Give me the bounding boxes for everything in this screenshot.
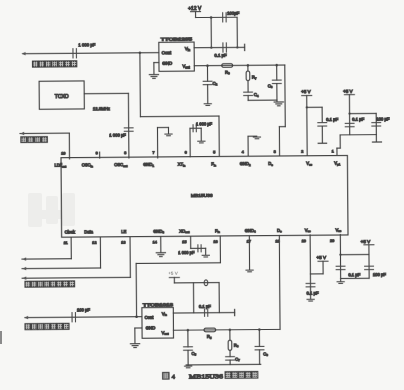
svg-text:Do: Do	[277, 228, 282, 234]
regulator U2 box TTOB1285	[159, 42, 195, 71]
svg-text:TTOB1285: TTOB1285	[161, 36, 193, 41]
node A junction on input line	[139, 51, 142, 54]
svg-text:1 000 pF: 1 000 pF	[196, 121, 213, 126]
power +5V pin 2	[302, 95, 312, 97]
wire: lock detect line	[20, 132, 69, 134]
regulator U3 box TTOB1018	[142, 307, 174, 338]
svg-text:Fin: Fin	[215, 228, 220, 234]
terminal bar end of Vin rail	[244, 44, 246, 50]
svg-text:2: 2	[301, 149, 303, 154]
wire: pin 9 stub	[99, 152, 101, 158]
svg-text:100 μF: 100 μF	[376, 117, 390, 122]
label: RF input Chinese	[32, 61, 76, 67]
svg-text:0.1 μF: 0.1 μF	[352, 117, 364, 122]
wire: lock detect down to pin 10	[68, 133, 70, 159]
wire: U3 Vin line	[173, 312, 234, 314]
terminal: Clock	[22, 257, 26, 260]
label: synth output Chinese	[25, 323, 69, 329]
wire: U2 Vout line	[194, 64, 284, 67]
capacitor C-b 0.1uF	[223, 43, 226, 52]
terminal: Data	[22, 267, 26, 270]
terminal: lock detect output	[20, 132, 24, 135]
wire: Vin rail of U2	[194, 46, 244, 48]
wire: U3 Vout loop filter line	[173, 328, 280, 331]
svg-text:Vout: Vout	[182, 64, 189, 70]
svg-text:XOout: XOout	[179, 229, 189, 235]
svg-text:LE: LE	[121, 229, 126, 234]
svg-text:OSCout: OSCout	[114, 162, 127, 168]
wire: pin 16 Fin2 route	[219, 236, 221, 263]
svg-text:Clock: Clock	[65, 229, 76, 234]
terminal bar 100uF	[372, 141, 381, 143]
capacitor 100uF right	[372, 123, 381, 126]
svg-text:GND: GND	[162, 61, 173, 66]
svg-text:R6: R6	[234, 343, 239, 349]
terminal: synthesizer output port	[24, 316, 28, 319]
capacitor C3 branch	[276, 65, 278, 80]
svg-text:C4: C4	[254, 92, 259, 98]
junction on +12V rail	[210, 16, 213, 19]
terminal: RF synthesizer input	[21, 52, 25, 55]
wire: to 100uF branch	[350, 112, 377, 114]
svg-text:GND4: GND4	[245, 228, 256, 234]
capacitor: OSC coupling 1000pF	[124, 128, 133, 131]
power +5V pin 1	[344, 94, 354, 96]
scan artifact: faint watermark	[28, 193, 75, 227]
svg-text:R7: R7	[252, 75, 257, 81]
svg-text:3: 3	[274, 149, 276, 154]
junctions on Vout line	[206, 64, 209, 67]
resistor R7 vertical	[247, 65, 249, 71]
wire: VCO input line	[25, 316, 142, 319]
power +12V lead	[191, 11, 201, 13]
svg-text:GND: GND	[146, 326, 156, 331]
capacitor U3 Vin 0.1uF	[204, 309, 207, 316]
wire: pin2 bypass branch	[307, 106, 322, 108]
svg-text:1 000 pF: 1 000 pF	[178, 250, 195, 255]
wire: U2 GND stub	[154, 62, 159, 64]
bottom pin labels	[65, 227, 342, 235]
svg-text:13: 13	[121, 240, 125, 245]
wire: Do route down	[284, 65, 286, 127]
ground: U2 GND	[149, 75, 158, 79]
scan artifact: left edge mark	[0, 331, 2, 344]
svg-text:C3: C3	[268, 83, 273, 89]
svg-text:6: 6	[185, 150, 187, 155]
power +5V pin20	[364, 244, 374, 246]
svg-text:Vcc: Vcc	[306, 161, 312, 167]
ground: C2	[204, 104, 211, 106]
wire: pin 15 bypass	[190, 237, 192, 249]
svg-text:+12 V: +12 V	[188, 6, 202, 12]
svg-text:TCXO: TCXO	[55, 94, 69, 100]
wire: TCXO drop to OSC pin	[127, 93, 130, 158]
capacitor 0.1uF pin2	[318, 123, 327, 126]
wire: down to pin 5 Fin	[218, 116, 220, 156]
caption: figure 4	[163, 371, 258, 381]
resistor R5 series	[204, 328, 216, 332]
IC U1 MB15U36 box	[61, 155, 348, 237]
wire: pin 4 GND up	[247, 136, 249, 155]
ground: pin 17	[246, 270, 253, 272]
ground: pin20 rail	[337, 282, 344, 284]
svg-text:0.1 μF: 0.1 μF	[326, 117, 338, 122]
wire: TCXO output	[84, 92, 128, 94]
node B junction bottom input	[135, 315, 138, 318]
capacitor C5 branch	[187, 330, 189, 347]
resistor R6b vertical	[229, 330, 231, 340]
capacitor C2 branch	[206, 66, 208, 82]
svg-text:C5: C5	[192, 351, 197, 357]
capacitor 0.1uF pin1	[345, 123, 354, 126]
capacitor pin19 0.1uF	[306, 283, 315, 286]
capacitor XTin 1000pF	[193, 125, 196, 132]
bottom pin numbers	[64, 238, 335, 245]
svg-text:MB15U36: MB15U36	[191, 193, 213, 199]
svg-text:1 000 pF: 1 000 pF	[109, 132, 126, 137]
svg-text:15: 15	[182, 239, 186, 244]
resistor R6 series	[222, 64, 233, 68]
svg-text:8: 8	[124, 150, 126, 155]
ground: pin 14	[156, 253, 165, 257]
svg-text:Vcc: Vcc	[335, 227, 341, 233]
svg-text:100 μF: 100 μF	[373, 272, 387, 277]
capacitor pin20 0.1uF	[336, 266, 345, 269]
wire: pin 14 GND	[160, 237, 162, 252]
svg-text:C6: C6	[263, 351, 268, 357]
svg-text:0.1 μF: 0.1 μF	[214, 53, 227, 58]
ground: XTin cap	[198, 141, 205, 143]
svg-text:Fin: Fin	[211, 161, 216, 167]
wire: pin 12 Data	[99, 237, 101, 268]
svg-text:R6: R6	[225, 70, 230, 76]
wire: pin 11 Clock	[70, 238, 72, 259]
svg-text:+5 V: +5 V	[361, 239, 372, 244]
wire: +5V drops to Vin line	[192, 283, 194, 313]
wire: right rail down	[236, 17, 238, 47]
svg-text:Vin: Vin	[185, 46, 191, 52]
capacitor C7	[226, 357, 235, 360]
capacitor: input coupling 1000pF	[73, 49, 76, 58]
capacitor C6 branch	[258, 330, 260, 347]
wire: RF input line to regulator U2 Cont	[23, 53, 159, 54]
wire: caps bottom rail to pin 1	[340, 134, 376, 136]
wire: +12V top rail	[196, 16, 237, 18]
ground: pin19	[307, 299, 314, 301]
svg-text:+5 V: +5 V	[301, 89, 310, 94]
svg-text:12.8MHz: 12.8MHz	[93, 106, 110, 111]
ground: pin 4	[253, 137, 260, 139]
svg-text:+5 V: +5 V	[168, 271, 179, 276]
svg-text:MB15U36: MB15U36	[189, 373, 223, 380]
svg-text:+5 V: +5 V	[343, 89, 352, 94]
wire: pin 6 XTin up	[189, 128, 191, 156]
svg-text:Vin: Vin	[162, 311, 167, 317]
svg-text:GND2: GND2	[240, 161, 251, 167]
wire: C4 to ground rail	[248, 99, 277, 101]
ground: pin 7	[165, 134, 172, 136]
svg-text:XTin: XTin	[178, 162, 186, 168]
top pin numbers	[61, 149, 334, 156]
wire: across to Fin column	[140, 115, 219, 118]
svg-text:TTOB1018: TTOB1018	[143, 302, 174, 307]
wire: U3 GND stub	[135, 327, 142, 329]
top pin labels	[54, 161, 340, 169]
svg-text:0.1 μF: 0.1 μF	[199, 304, 211, 309]
ground: U3 GND	[130, 344, 139, 348]
power +5V pin19	[318, 260, 328, 262]
wire: caps bottom rail	[341, 277, 369, 279]
label: lock detect Chinese	[21, 137, 48, 143]
capacitor C-a 100uF	[223, 13, 226, 22]
svg-text:Vp1: Vp1	[334, 161, 340, 167]
terminal bar pin2 cap	[318, 142, 326, 144]
svg-text:R5: R5	[207, 334, 212, 340]
ferrite bead on +5V feed	[204, 280, 208, 286]
label: control input Chinese	[25, 281, 75, 287]
svg-text:Cont: Cont	[145, 315, 155, 320]
svg-text:17: 17	[247, 239, 251, 244]
ground: pin15 cap	[202, 255, 209, 257]
wire: pin 18 Do2 down	[278, 235, 281, 329]
svg-text:C7: C7	[235, 357, 240, 363]
svg-text:7: 7	[152, 150, 154, 155]
svg-text:Vcc: Vcc	[305, 228, 311, 234]
terminal bar Vin line	[234, 309, 236, 315]
capacitor C4	[244, 92, 253, 95]
wire: pin 7 GND up	[156, 128, 158, 158]
svg-text:12: 12	[92, 240, 96, 245]
svg-text:GND1: GND1	[143, 162, 154, 168]
capacitor pin20 100uF	[365, 266, 374, 269]
svg-text:19: 19	[302, 238, 306, 243]
oscillator TCXO box	[39, 81, 84, 109]
capacitor: input coupling 100pF	[72, 313, 75, 322]
svg-text:18: 18	[275, 239, 279, 244]
svg-text:Vout: Vout	[162, 330, 169, 336]
svg-text:OSCin: OSCin	[82, 162, 94, 168]
svg-text:5: 5	[213, 149, 215, 154]
svg-text:0.1 μF: 0.1 μF	[348, 272, 360, 277]
svg-text:11: 11	[64, 240, 68, 245]
ground: filter rail	[185, 366, 192, 368]
wire: node A down	[139, 53, 142, 117]
junction dots Vin rail	[210, 46, 212, 48]
svg-text:0.1 μF: 0.1 μF	[307, 291, 319, 296]
svg-text:+5 V: +5 V	[316, 255, 327, 260]
svg-text:LD/fout: LD/fout	[54, 163, 66, 169]
terminal: LE	[22, 276, 26, 279]
svg-text:1 000 pF: 1 000 pF	[78, 42, 95, 47]
svg-text:100 pF: 100 pF	[77, 308, 91, 313]
capacitor pin15 1000pF	[198, 245, 201, 252]
svg-text:1: 1	[332, 149, 334, 154]
wire: filter ground rail	[186, 363, 261, 366]
svg-text:9: 9	[96, 150, 98, 155]
svg-text:Data: Data	[84, 229, 93, 234]
svg-text:Cont: Cont	[162, 50, 172, 55]
wire: left rail down	[210, 17, 212, 47]
ground: C3/C4	[274, 102, 283, 106]
svg-text:C2: C2	[213, 81, 218, 87]
wire: pin 13 LE	[129, 237, 131, 277]
svg-text:100μF: 100μF	[227, 11, 240, 16]
svg-text:Do: Do	[268, 161, 273, 167]
wire: pin 20 Vcc	[339, 235, 341, 279]
svg-text:GND3: GND3	[153, 229, 164, 235]
wire: pin 19 Vcc	[309, 235, 312, 299]
wire: pin 17 GND	[248, 236, 250, 270]
svg-text:16: 16	[213, 239, 217, 244]
